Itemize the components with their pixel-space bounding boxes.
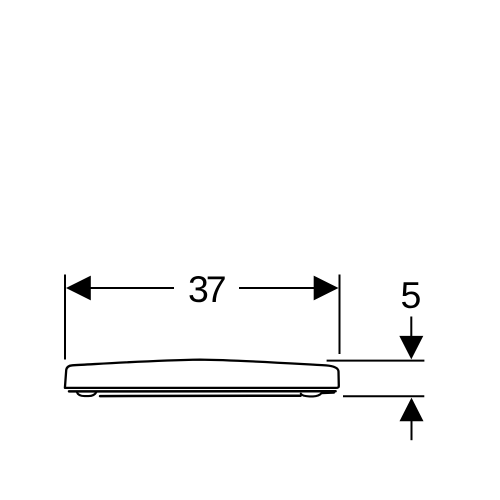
extension line top (dimension 5): [327, 360, 425, 362]
left bumper: [77, 392, 97, 396]
dimension line 37 right segment: [239, 287, 315, 289]
arrowhead bottom (dimension 5, pointing up): [400, 398, 424, 422]
svg-text:37: 37: [188, 268, 225, 310]
arrowhead right of dimension 37: [314, 276, 339, 301]
right bumper: [301, 393, 334, 397]
extension line right (width 37): [339, 275, 341, 355]
svg-text:5: 5: [400, 274, 421, 316]
dimension line 37 left segment: [91, 287, 175, 289]
underside plate line: [69, 390, 336, 393]
underside bottom contour line: [100, 394, 301, 397]
extension line left (width 37): [64, 275, 66, 360]
leader stem below bottom arrow (dimension 5): [411, 421, 413, 440]
leader stem above top arrow (dimension 5): [410, 317, 412, 338]
arrowhead left of dimension 37: [66, 276, 91, 301]
arrowhead top (dimension 5, pointing down): [399, 336, 423, 360]
extension line bottom (dimension 5): [343, 395, 424, 397]
seat lid body (side view): [65, 360, 339, 388]
